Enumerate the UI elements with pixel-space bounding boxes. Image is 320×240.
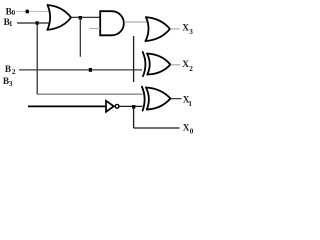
svg-text:0: 0 bbox=[12, 9, 16, 17]
xor-gate U5 bbox=[142, 87, 171, 111]
wire vertical from U6 output junction down bbox=[133, 106, 135, 128]
junction dot on U6 output bbox=[132, 105, 135, 109]
wire elbow from B1 branch to XOR U5 upper input bbox=[37, 93, 143, 95]
svg-text:2: 2 bbox=[189, 65, 193, 73]
wire gray stub to U2 lower input bbox=[90, 28, 101, 30]
svg-text:1: 1 bbox=[188, 100, 192, 108]
junction dot on B1 wire bbox=[36, 21, 39, 24]
wire vertical stub below U1 output junction bbox=[79, 17, 81, 56]
xor-gate U4 bbox=[143, 52, 171, 76]
svg-text:2: 2 bbox=[12, 68, 16, 76]
wire B2 to XOR U4 bbox=[19, 69, 142, 71]
inverter U6 bbox=[106, 101, 114, 112]
or-gate U3 bbox=[146, 17, 170, 41]
wire U2 output to OR gate U3 bbox=[124, 21, 147, 23]
wire vertical segment near U3/U4 inputs bbox=[133, 36, 135, 82]
wire U1 output to AND gate U2 bbox=[71, 16, 100, 18]
svg-text:B: B bbox=[5, 65, 11, 75]
svg-text:1: 1 bbox=[9, 20, 13, 28]
wire horizontal to X0 bbox=[134, 127, 180, 129]
svg-text:0: 0 bbox=[190, 128, 194, 136]
wire U4 output stub to X2 bbox=[171, 64, 181, 66]
wire U3 output stub to X3 bbox=[170, 28, 180, 30]
wire vertical branch from B1 junction bbox=[36, 23, 38, 94]
wire B1 to OR gate U1 bbox=[17, 22, 50, 24]
wire U5 output to X1 bbox=[171, 98, 182, 100]
junction dot on U1 output bbox=[79, 16, 82, 20]
or-gate U1 bbox=[47, 5, 71, 30]
inverter U6 bubble bbox=[115, 104, 119, 108]
svg-text:X: X bbox=[182, 24, 189, 34]
wire U6 output to XOR U5 lower input bbox=[120, 105, 143, 107]
junction dot on B2 wire bbox=[89, 68, 92, 72]
and-gate U2 bbox=[100, 11, 124, 35]
wire input line to inverter U6 bbox=[28, 105, 106, 107]
svg-text:X: X bbox=[182, 60, 189, 70]
svg-text:3: 3 bbox=[189, 28, 193, 36]
svg-text:3: 3 bbox=[9, 80, 13, 88]
junction dot on B0 wire bbox=[26, 10, 29, 14]
wire B0 to OR gate U1 bbox=[16, 11, 49, 13]
